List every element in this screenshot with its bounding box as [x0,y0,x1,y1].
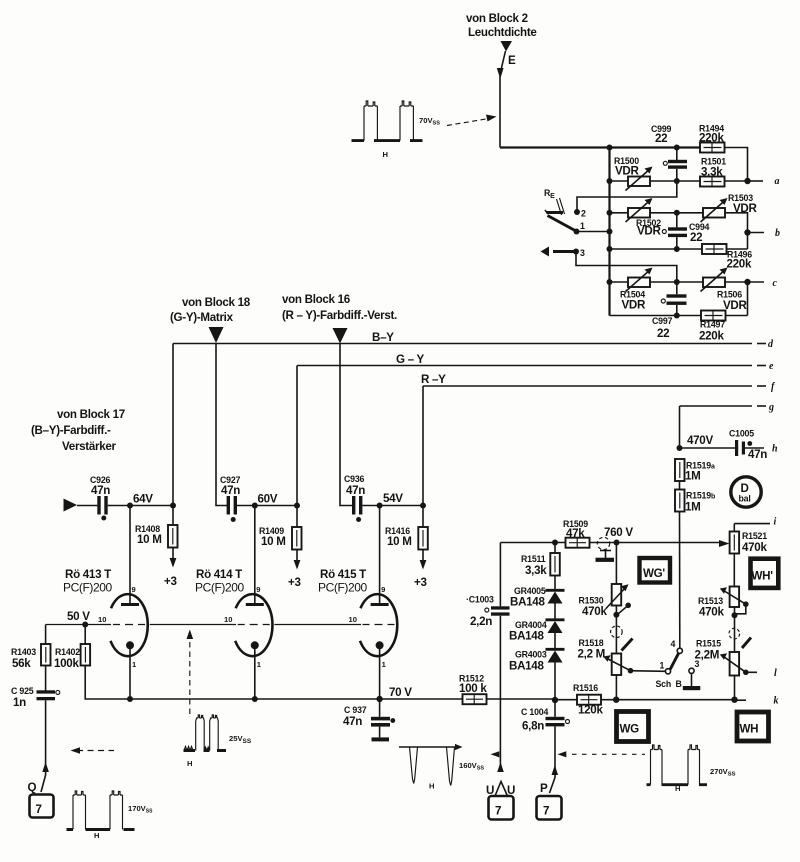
svg-text:R1506: R1506 [717,290,742,300]
node C997 bottom [674,313,680,319]
svg-text:WG': WG' [643,567,665,580]
wire grid line 50V [46,624,361,626]
svg-text:g: g [768,402,774,413]
node rail R1518 [613,697,619,703]
wire row R1500-R1501 [610,180,701,182]
node cathode3 70V [376,696,382,702]
potentiometer R1518 2,2M [578,638,634,675]
svg-text:Q: Q [28,781,37,794]
node 470V [677,445,683,451]
svg-text:47k: 47k [566,527,585,540]
input arrow B-Y [64,499,78,512]
wire B-Y rail [173,343,766,345]
resistor R1496 220k [702,244,752,271]
wire U split [495,782,508,797]
svg-text:470k: 470k [582,605,607,618]
svg-text:Sch B: Sch B [656,679,682,689]
capacitor C1004 6,8n [521,700,570,778]
svg-text:R1403: R1403 [11,647,36,657]
power +3 arrow tube3 [414,550,427,590]
arrow on U wire [497,762,504,772]
svg-text:22: 22 [655,132,667,145]
dashed arrow bottom left [71,747,115,754]
wire top row to ladder [500,146,700,148]
svg-text:H: H [94,831,99,840]
switch Sch B arm [670,653,678,669]
svg-text:10: 10 [98,615,106,624]
svg-text:220k: 220k [699,330,724,343]
node R1530 wiper [613,612,619,618]
wire R1530 chain vertical [615,543,617,585]
node R1500 left [607,178,613,184]
capacitor C936 47n [344,474,380,522]
svg-text:PC(F)200: PC(F)200 [318,581,368,595]
wire vertical G-Y down [296,366,298,506]
resistor R1408 10M [135,506,178,548]
wire R1496 to node b [727,248,748,250]
node C999 top [674,145,680,151]
ground at contact 3 [683,673,701,690]
svg-text:c: c [773,278,778,289]
box WH' [751,559,779,588]
svg-text:1M: 1M [685,470,701,483]
svg-text:47n: 47n [748,448,767,461]
node C994 bottom [674,246,680,252]
svg-text:9: 9 [256,585,260,594]
svg-text:R1515: R1515 [696,639,721,649]
resistor R1502 VDR [626,198,662,238]
svg-text:+3: +3 [164,575,177,588]
potentiometer R1513 470k [698,587,749,619]
svg-text:k: k [774,696,779,707]
terminal b [748,228,781,239]
svg-text:54V: 54V [383,492,403,505]
wire C999 bottom to switch pos2 [577,181,677,212]
connector box 7 P [537,796,562,820]
tube U415 envelope [360,594,397,656]
wire vertical R-Y down [422,386,424,506]
switch Sch B contact 1 [660,661,671,674]
wire 60V to bus [255,505,297,507]
wire diode chain to rail [554,663,556,701]
svg-text:10 M: 10 M [387,535,412,548]
svg-text:9: 9 [381,585,385,594]
node 54V [377,503,383,509]
capacitor C1003 2,2n [466,595,510,629]
coupling circle right [729,628,740,639]
svg-text:h: h [772,444,778,455]
svg-text:WH: WH [740,723,759,736]
label U U [486,784,515,797]
svg-text:von Block 18: von Block 18 [182,296,251,309]
svg-text:9: 9 [132,585,136,594]
svg-text:C 1004: C 1004 [521,707,548,717]
svg-text:GR4004: GR4004 [515,620,547,630]
coupling wedge left [622,639,633,651]
wire Q kink [41,763,46,792]
svg-text:VDR: VDR [615,165,640,178]
node pos1 bus [607,229,613,235]
arrow on P wire [552,765,559,775]
tube U413 anode [121,506,139,605]
svg-text:H: H [675,784,680,793]
wire pos1 to bus [577,231,610,233]
potentiometer R1530 470k [579,584,632,618]
wire C1003 down to U [499,616,501,765]
arrow on Q wire [42,762,49,772]
svg-text:VDR: VDR [637,225,662,238]
svg-text:470k: 470k [699,606,724,619]
svg-text:Rö 413 T: Rö 413 T [65,568,111,581]
wire R1513 to R1515 [734,607,736,652]
node cathode1 [127,696,133,702]
arrow into R1521 [719,540,730,547]
svg-text:120k: 120k [578,704,603,717]
capacitor C937 47n [343,699,395,741]
wire between R1519a-b [679,481,681,490]
svg-text:56k: 56k [12,657,31,670]
svg-text:G – Y: G – Y [396,353,424,366]
svg-text:R1518: R1518 [579,638,604,648]
resistor R1511 3,3k [521,543,560,578]
connector box 7 Q [30,795,54,818]
svg-text:a: a [775,176,780,187]
svg-text:2,2n: 2,2n [470,615,492,628]
node R1511 top [552,540,558,546]
node C1004 rail [552,697,558,703]
svg-text:47n: 47n [346,484,365,497]
tube U415 grid dashes [363,624,395,626]
svg-text:7: 7 [36,803,42,816]
svg-text:60V: 60V [258,493,278,506]
svg-text:l: l [774,668,777,679]
svg-text:50 V: 50 V [67,610,90,623]
node top-bus junction [607,145,613,151]
svg-text:10 M: 10 M [137,533,162,546]
node 50V R1402 [82,622,88,628]
wire corner C1003 down [499,543,501,607]
svg-text:(B–Y)-Farbdiff.-: (B–Y)-Farbdiff.- [31,424,111,437]
svg-text:2,2 M: 2,2 M [578,648,606,661]
svg-text:R1516: R1516 [573,683,598,693]
wire vertical Block18 down [216,344,229,506]
wire row3 bottom [610,282,748,316]
svg-text:Verstärker: Verstärker [62,440,117,453]
wire row2 bottom [610,248,703,250]
wire R-Y rail [423,385,766,387]
svg-text:R1521: R1521 [742,531,767,541]
dashed arrow to E wire [447,115,497,126]
resistor R1516 120k [573,683,603,717]
wire R1518 to rail [615,675,617,700]
svg-text:Leuchtdichte: Leuchtdichte [468,26,537,39]
node R1504 left [607,279,613,285]
wire vertical Block16 down [340,344,354,506]
wire g-line [680,405,767,407]
svg-text:760 V: 760 V [604,526,633,539]
diode GR4005 BA148 [510,576,565,609]
dashed leader to U arrow [491,751,500,757]
resistor R1497 220k [699,311,726,343]
label tube3 Rö 415 T [318,568,368,595]
coupling circle left [611,626,623,638]
waveform 160Vss [399,744,484,791]
svg-text:C1005: C1005 [729,429,754,439]
label von Block 17 [31,408,125,453]
svg-text:H: H [383,150,388,159]
svg-text:von Block 2: von Block 2 [466,12,528,25]
resistor R1509 47k [563,519,590,548]
svg-text:220k: 220k [699,132,724,145]
resistor R1519b 1M [675,490,715,514]
node G-Y bus joint [294,503,300,509]
svg-text:von Block 17: von Block 17 [57,408,125,421]
resistor R1403 56k [11,625,51,671]
svg-text:R1513: R1513 [698,596,723,606]
switch Sch B contact 3 [689,659,700,673]
svg-text:von Block 16: von Block 16 [282,293,351,306]
svg-text:220k: 220k [727,258,752,271]
wire R1521 to R1513 [733,554,735,587]
wire R1506 to node c [725,281,748,283]
svg-text:R –Y: R –Y [421,373,446,386]
potentiometer R1515 2,2M [695,639,758,676]
capacitor C926 47n [77,475,130,521]
waveform 170Vss bottom left [67,791,154,840]
wire bus vertical [608,148,610,316]
svg-text:b: b [775,228,780,239]
wire i-line [734,517,776,528]
wire R1494 to corner down to node a [725,148,748,182]
svg-text:10: 10 [349,615,357,624]
input triangle von Block 16 [333,328,348,344]
dashed leader to P arrow [558,751,646,757]
waveform 70Vss [352,101,423,159]
terminal k [738,696,779,707]
resistor R1504 VDR [620,268,653,312]
node c junction [744,279,750,285]
svg-text:470V: 470V [687,434,713,447]
waveform 270Vss [647,745,736,793]
resistor R1506 VDR [701,268,748,313]
node C997 top [674,279,680,285]
label von Block 18 [170,296,251,324]
svg-text:64V: 64V [133,493,153,506]
svg-text:GR4005: GR4005 [514,586,546,596]
tube U414 anode [246,506,264,605]
svg-text:WG: WG [620,723,640,736]
ground symbol 760V [596,537,615,562]
svg-text:1: 1 [580,221,585,231]
capacitor C994 [662,213,709,249]
svg-text:BA148: BA148 [509,630,544,643]
resistor R1501 3.3k [700,157,726,187]
node B-Y bus joint [170,503,176,509]
capacitor C925 1n [11,666,60,764]
input triangle von Block 18 [209,327,224,343]
capacitor C999 [651,124,687,181]
power +3 arrow tube1 [164,548,177,589]
node 60V [252,503,258,509]
node R1502 left [607,210,613,216]
svg-text:22: 22 [690,231,702,244]
indicator D bal [731,477,761,507]
box WG [617,712,649,742]
wire contact3 lead with arrow [541,247,577,257]
tube U414 cathode [251,641,262,699]
node 64V [127,503,133,509]
wire R1518 wiper to Sch B [631,670,666,673]
svg-text:·C1003: ·C1003 [466,595,494,605]
wire R1530 to R1518 [615,606,617,654]
node C999 bottom [674,178,680,184]
tube U415 anode [371,506,389,605]
resistor R1519a 1M [675,459,715,483]
resistor R1402 100k [54,625,90,671]
wire R1515 to rail [734,676,736,700]
svg-text:VDR: VDR [723,299,748,312]
resistor R1521 470k [730,531,768,554]
svg-text:PC(F)200: PC(F)200 [195,581,245,595]
svg-text:1n: 1n [13,696,26,709]
svg-text:6,8n: 6,8n [522,720,544,733]
node R1496 row left [607,246,613,252]
wire i to R1521 [733,524,735,532]
svg-text:7: 7 [543,805,549,818]
wire vertical B-Y down [172,344,174,506]
tube U413 grid dashes [113,624,145,626]
svg-text:B–Y: B–Y [372,331,394,344]
svg-text:R1519b: R1519b [686,491,715,501]
waveform 25Vss [184,715,227,768]
wire 760V top row [500,542,722,544]
power +3 arrow tube2 [288,550,301,590]
node R1530 top [614,540,620,546]
resistor R1500 VDR [614,156,653,191]
resistor R1494 220k [699,124,725,153]
switch contact 1 [574,221,586,235]
node R-Y bus joint [420,503,426,509]
svg-text:100k: 100k [54,657,79,670]
svg-text:10: 10 [224,615,232,624]
svg-text:bal: bal [739,494,751,504]
terminal a [748,176,780,187]
svg-text:1M: 1M [685,501,701,514]
wire pos3 to C997 [576,252,677,283]
tube U413 envelope [111,594,148,656]
label tube1 Rö 413 T [63,568,113,595]
svg-text:(R – Y)-Farbdiff.-Verst.: (R – Y)-Farbdiff.-Verst. [282,309,397,322]
box WG' [640,558,671,583]
svg-text:BA148: BA148 [509,660,544,673]
wire rail R1512 segment [462,698,735,701]
tube U415 cathode [376,641,387,699]
svg-text:(G-Y)-Matrix: (G-Y)-Matrix [170,311,234,324]
svg-text:47n: 47n [221,484,240,497]
svg-text:WH': WH' [752,570,774,583]
node R1513 wiper [732,612,738,618]
tube U414 grid dashes [238,624,270,626]
svg-text:E: E [508,54,516,67]
input terminal E arrow [497,41,516,79]
svg-text:470k: 470k [742,541,767,554]
svg-text:GR4003: GR4003 [515,650,547,660]
box WH [737,712,769,741]
svg-text:Rö 415 T: Rö 415 T [320,568,366,581]
switch contact 2 [574,209,586,219]
wire rail to R1515 bottom [731,697,737,703]
svg-text:P: P [540,782,548,795]
terminal c [748,278,778,289]
svg-text:7: 7 [495,805,501,818]
svg-text:BA148: BA148 [510,596,545,609]
label von Block 16 [282,293,397,322]
tube U414 envelope [235,594,272,656]
svg-text:+3: +3 [414,576,427,589]
svg-text:47n: 47n [91,484,110,497]
svg-text:+3: +3 [288,576,301,589]
svg-text:1: 1 [660,661,665,671]
switch Sch B contact 4 [671,639,683,653]
coupling wedge right [742,638,751,649]
svg-text:i: i [774,517,777,528]
resistor R1512 100k [459,674,487,705]
wire R1501 to node a [725,180,748,182]
label tube2 Rö 414 T [195,568,245,595]
svg-text:C997: C997 [652,316,673,326]
svg-text:100 k: 100 k [459,682,487,695]
svg-text:C 925: C 925 [11,686,34,696]
wire row3 top [610,281,704,283]
svg-text:3: 3 [580,248,585,258]
diode GR4003 BA148 [509,633,565,673]
wire P kink [550,778,555,793]
wire 54V to bus [380,505,423,507]
svg-text:3,3k: 3,3k [525,564,547,577]
connector box 7 U [489,796,514,820]
node cathode2 [252,696,258,702]
dashed arrow vertical middle [187,630,194,715]
svg-text:C 937: C 937 [344,705,367,715]
wire R1503 to node b [725,213,748,249]
wire 64V to bus [130,505,173,507]
svg-text:2: 2 [581,209,586,219]
svg-text:47n: 47n [343,715,362,728]
resistor R1409 10M [259,506,302,550]
svg-text:2,2M: 2,2M [695,649,720,662]
wire row2 top [610,212,704,214]
node C994 top [674,210,680,216]
wire E vertical [499,76,501,148]
resistor R1503 VDR [701,193,758,222]
wire vertical g to 470V node [679,406,681,448]
svg-text:R1511: R1511 [521,554,546,564]
switch contact 3 [573,248,585,258]
svg-text:3.3k: 3.3k [701,166,723,179]
node a junction [744,178,750,184]
svg-text:H: H [429,782,434,791]
svg-text:10 M: 10 M [261,535,286,548]
capacitor C1005 [680,429,768,462]
wire R1519b down to Sch B contact 4 [679,512,681,649]
svg-text:PC(F)200: PC(F)200 [63,581,113,595]
switch RE [544,188,575,231]
wire cathode rail [85,666,462,700]
label von Block 2 [466,12,537,39]
diode GR4004 BA148 [509,604,565,643]
capacitor C997 [652,282,687,340]
svg-text:4: 4 [671,639,676,649]
